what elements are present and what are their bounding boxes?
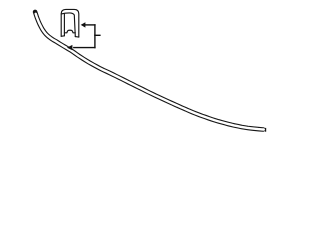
leader shaft to clip (85, 24, 95, 26)
moulding clip (61, 9, 79, 37)
clip right leg bottom (75, 36, 79, 39)
arrowhead pointing to strip (67, 45, 73, 50)
callout bracket (74, 25, 100, 48)
clip front bottom edge with arch cutout (64, 30, 75, 33)
molding strip (windshield reveal moulding) (35, 12, 266, 132)
bracket tick (95, 34, 100, 36)
clip channel left inner edge (63, 14, 65, 36)
clip outer outline (61, 9, 79, 37)
clip left leg bottom (61, 35, 64, 38)
bracket vertical (94, 25, 96, 48)
leader shaft to strip (74, 47, 95, 49)
strip right end cap (265, 128, 267, 132)
clip front lip line curving into right inner edge (61, 13, 75, 37)
arrowhead pointing to clip (81, 22, 86, 27)
